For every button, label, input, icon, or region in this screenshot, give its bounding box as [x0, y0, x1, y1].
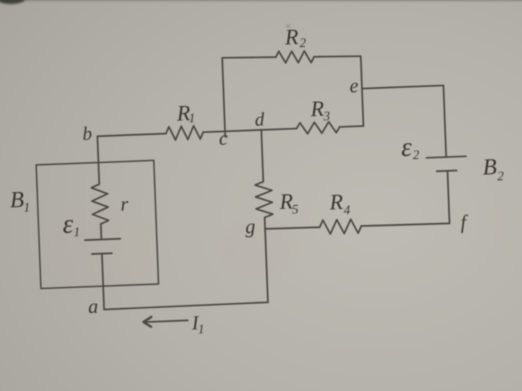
wire d down to R5: [261, 130, 263, 182]
svg-text:1: 1: [23, 199, 30, 214]
resistor R1: [166, 125, 204, 140]
current I1 arrow: [145, 320, 188, 322]
wire R2 to top-right corner: [314, 55, 361, 58]
resistor R5: [255, 181, 273, 217]
svg-text:d: d: [254, 109, 265, 130]
svg-text:a: a: [88, 296, 99, 318]
resistor R4: [319, 219, 361, 235]
wire a up to battery: [102, 254, 104, 310]
svg-text:2: 2: [299, 35, 307, 50]
resistor R2: [276, 50, 315, 64]
svg-text:ε: ε: [400, 132, 412, 162]
svg-text:g: g: [245, 216, 256, 238]
wire B2 to f: [448, 171, 450, 224]
wire R4 to g: [265, 227, 320, 230]
svg-text:ε: ε: [62, 209, 74, 239]
svg-text:1: 1: [73, 224, 80, 239]
wire c up: [222, 58, 225, 137]
wire R3 to right loop corner: [340, 125, 364, 128]
svg-text:c: c: [219, 128, 229, 150]
faint speck top middle: [286, 25, 290, 28]
wire right loop vertical through node e: [361, 56, 364, 126]
wire e to battery B2 corner: [362, 85, 446, 160]
svg-text:1: 1: [198, 321, 205, 336]
svg-text:5: 5: [292, 201, 300, 216]
svg-text:e: e: [349, 75, 359, 97]
svg-text:R: R: [328, 189, 344, 215]
wire g down to bottom corner: [265, 229, 268, 302]
warm tint inside battery box: [45, 206, 155, 290]
battery eps1 short plate: [92, 252, 112, 255]
bottom wire to a: [104, 302, 268, 309]
top edge shadow band: [0, 0, 522, 5]
wire R5 to g: [264, 217, 266, 228]
svg-text:r: r: [120, 194, 129, 216]
battery eps1 long plate: [85, 239, 120, 240]
svg-text:2: 2: [497, 168, 505, 183]
wire f to R4: [361, 223, 449, 227]
svg-text:1: 1: [188, 110, 195, 125]
resistor R3: [296, 121, 339, 134]
wire top-left to R2: [222, 56, 276, 59]
svg-text:4: 4: [343, 202, 351, 217]
svg-text:2: 2: [413, 147, 421, 162]
battery B2 long plate: [426, 156, 465, 158]
battery B1 box: [36, 160, 158, 288]
wire R1 to d (through node c): [203, 129, 296, 133]
svg-text:b: b: [82, 124, 92, 145]
resistor r: [91, 184, 109, 224]
top-left dark corner blob: [0, 0, 25, 4]
wire r up to b: [97, 136, 99, 184]
svg-text:3: 3: [322, 108, 331, 123]
svg-text:R: R: [283, 24, 299, 50]
svg-text:B: B: [482, 154, 497, 180]
battery B2 short plate: [437, 169, 457, 172]
wire battery to r: [100, 224, 103, 239]
svg-text:B: B: [9, 187, 24, 213]
wire b to R1: [97, 134, 166, 137]
warm tint near g: [218, 218, 298, 278]
